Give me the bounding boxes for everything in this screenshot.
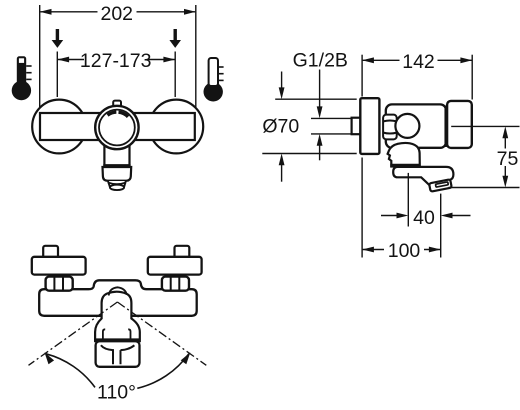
wall flange D70 (side view) <box>360 98 379 154</box>
dimension 100 arrowhead right <box>429 247 441 253</box>
dimension D70 up arrow <box>279 154 285 166</box>
dimension 40 right arrow <box>452 215 471 217</box>
knob indicator arc band right <box>119 112 129 117</box>
inner tube lines (plan) <box>103 329 131 345</box>
dimension 100 line <box>363 249 441 251</box>
dimension 202 arrowhead right <box>184 9 196 15</box>
dimension 127-173 line <box>58 59 175 61</box>
aerator (front view) <box>108 181 126 190</box>
spout collar (front view) <box>103 167 132 181</box>
spout silhouette (plan view) <box>95 292 140 342</box>
dimension 202 arrowhead left <box>40 9 52 15</box>
dimension 75 line with arrows <box>502 126 508 138</box>
dimension D70 down arrow <box>281 72 283 91</box>
dimension 127-173 arrowhead right <box>163 57 175 63</box>
hex nut left (plan) <box>46 277 73 291</box>
spout end line (plan) <box>95 338 140 341</box>
svg-text:G1/2B: G1/2B <box>293 50 348 72</box>
aerator (side view) <box>429 179 452 191</box>
spout bracket (side view) <box>388 143 420 167</box>
dimension 127-173 extension line right <box>174 52 176 98</box>
swivel arc right segment with arrowhead <box>137 354 189 389</box>
wall plane extension line <box>361 158 363 258</box>
dimension 75 top reference line <box>451 125 519 127</box>
body bar (plan view) <box>39 280 197 316</box>
faucet body bar (front view) <box>40 113 195 140</box>
svg-text:Ø70: Ø70 <box>262 116 299 138</box>
G1/2B up arrow below thread <box>317 134 323 146</box>
G1/2B leader line <box>319 70 321 111</box>
dimension 40 left arrow <box>381 215 398 217</box>
dimension 202 line <box>40 11 195 13</box>
dash-dot swivel line right <box>117 302 206 365</box>
hot thermometer icon (filled stem) <box>12 56 32 100</box>
knob top tab (front view) <box>113 101 121 110</box>
mounting arrow right (solid) <box>169 29 181 48</box>
mounting arrow left (solid) <box>52 29 64 48</box>
spout tube (front view) <box>103 144 130 166</box>
spout (side view) <box>393 167 453 186</box>
escutcheon left (front view) <box>32 100 86 154</box>
svg-text:75: 75 <box>497 148 519 170</box>
ribbed connector nut (side view) <box>383 115 397 140</box>
dimension 127-173 extension line left <box>56 52 58 98</box>
knob indicator arc band left <box>108 112 117 115</box>
dimension 202 extension line left <box>39 5 41 108</box>
main body cylinder (side view) <box>386 104 446 147</box>
thread reference line bottom <box>311 133 352 135</box>
dash-dot swivel line left <box>29 302 118 365</box>
spout axis extension line <box>407 173 409 227</box>
dimension 142 extension line right <box>471 55 473 100</box>
supply square left (plan) <box>43 246 58 258</box>
G1/2B leader arrowhead down <box>317 106 323 118</box>
svg-text:142: 142 <box>402 51 435 73</box>
dimension 142 line <box>363 59 472 61</box>
aerator housing (plan) <box>96 341 140 367</box>
dimension D70 top reference line <box>275 98 357 100</box>
end cap (side view) <box>447 101 472 148</box>
cold thermometer icon (hollow stem) <box>204 58 224 102</box>
dimension 202 extension line right <box>195 5 197 108</box>
swivel arc left segment with arrowhead <box>46 354 95 388</box>
dimension 142 extension line left <box>361 55 363 97</box>
outlet axis extension line <box>440 194 442 258</box>
dimension 75 bottom reference line <box>449 187 520 189</box>
dimension 100 arrowhead left <box>362 247 374 253</box>
svg-text:40: 40 <box>413 207 435 229</box>
svg-text:127-173: 127-173 <box>80 50 152 72</box>
mounting bracket right (plan) <box>148 257 202 275</box>
svg-text:202: 202 <box>100 3 133 25</box>
hex nut right (plan) <box>162 277 189 291</box>
wall thread connector G1/2 (side view) <box>352 118 361 135</box>
temperature knob inner ring <box>99 110 135 146</box>
dimension 127-173 arrowhead left <box>57 57 69 63</box>
body end edge <box>444 106 447 148</box>
escutcheon right (front view) <box>149 100 203 154</box>
temperature knob outer ring (front view) <box>95 106 138 149</box>
aerator face detail (plan) <box>101 345 134 364</box>
dimension 142 arrowhead right <box>460 57 472 63</box>
svg-text:100: 100 <box>388 240 421 262</box>
ball joint (side view) <box>395 114 419 138</box>
svg-text:110°: 110° <box>97 381 136 403</box>
dimension D70 bottom reference line <box>262 153 356 155</box>
supply square right (plan) <box>175 246 190 258</box>
dimension 142 arrowhead left <box>362 57 374 63</box>
thread reference line top <box>311 117 352 119</box>
mounting bracket left (plan) <box>32 257 86 275</box>
spout inner dome arc (plan) <box>109 287 127 295</box>
